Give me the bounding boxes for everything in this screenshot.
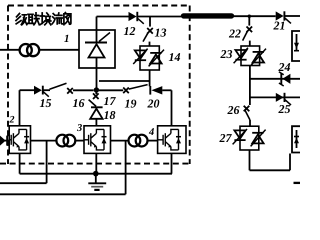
svg-text:19: 19 bbox=[125, 97, 137, 111]
svg-text:17: 17 bbox=[104, 94, 117, 108]
svg-text:3: 3 bbox=[76, 123, 82, 134]
svg-text:26: 26 bbox=[227, 103, 240, 117]
svg-text:16: 16 bbox=[73, 96, 85, 110]
svg-text:18: 18 bbox=[104, 108, 116, 122]
svg-text:4: 4 bbox=[148, 127, 154, 138]
svg-text:14: 14 bbox=[169, 50, 181, 64]
svg-text:25: 25 bbox=[278, 102, 291, 116]
svg-text:1: 1 bbox=[64, 33, 70, 45]
svg-text:21: 21 bbox=[273, 19, 286, 33]
svg-text:12: 12 bbox=[124, 24, 136, 38]
svg-text:20: 20 bbox=[147, 97, 160, 111]
svg-text:15: 15 bbox=[40, 96, 52, 110]
svg-text:24: 24 bbox=[278, 60, 291, 74]
svg-text:22: 22 bbox=[228, 27, 241, 41]
svg-text:13: 13 bbox=[155, 26, 167, 40]
svg-text:23: 23 bbox=[220, 47, 233, 61]
svg-text:2: 2 bbox=[9, 115, 15, 126]
svg-text:27: 27 bbox=[219, 131, 233, 145]
